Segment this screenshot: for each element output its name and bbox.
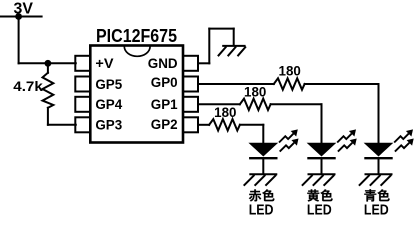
pin box left GP5: [75, 77, 90, 92]
resistor R4 180 zigzag: [209, 119, 240, 130]
ground symbol under LED D1 red: [244, 174, 278, 185]
op IC U1 PIC12F675 body: [90, 46, 183, 143]
wire GND net vertical up: [208, 29, 210, 64]
pin box right GP1: [183, 97, 198, 112]
ground symbol near IC: [218, 46, 246, 56]
wire down to yellow LED: [321, 104, 323, 143]
svg-text:LED: LED: [364, 203, 389, 219]
label 赤色 LED: [249, 189, 275, 201]
LED D2 yellow: [307, 129, 356, 158]
wire resistor bottom stub: [47, 108, 49, 125]
svg-text:GP0: GP0: [151, 75, 178, 91]
pin box left GP3: [75, 117, 90, 132]
label 黄色 LED: [307, 189, 332, 201]
wire LED D3 blue cathode: [378, 158, 380, 174]
wire resistor top stub: [47, 63, 49, 73]
svg-text:+V: +V: [95, 56, 114, 72]
svg-text:GP5: GP5: [95, 77, 122, 93]
svg-text:GP2: GP2: [151, 117, 178, 133]
ground symbol under LED D3 blue: [359, 174, 393, 185]
pin box left GP4: [75, 97, 90, 112]
junction dot on 3V rail: [15, 13, 22, 20]
wire 3V rail vertical drop: [18, 17, 20, 64]
wire GP0 to resistor R2: [198, 83, 274, 85]
resistor R3 180 zigzag: [240, 99, 271, 110]
ground symbol under LED D2 yellow: [302, 174, 336, 185]
junction node at resistor R1 top: [45, 60, 52, 67]
wire GND net horizontal: [209, 28, 233, 30]
wire to GP3 pin: [48, 124, 76, 126]
LED D1 red: [249, 129, 298, 158]
wire R4 to corner: [240, 124, 263, 126]
pin box right GP2: [183, 117, 198, 132]
svg-text:LED: LED: [307, 203, 332, 219]
LED D3 blue: [364, 129, 413, 158]
pin box right GND: [183, 56, 198, 71]
svg-text:180: 180: [279, 63, 301, 78]
wire LED D1 red cathode: [262, 158, 264, 174]
svg-text:4.7k: 4.7k: [13, 79, 43, 95]
wire 3V rail horizontal: [0, 16, 42, 18]
wire R3 to corner: [271, 103, 322, 105]
wire to +V pin: [19, 62, 76, 64]
IC pin-1 notch: [124, 46, 150, 56]
svg-text:GP1: GP1: [151, 97, 178, 113]
wire GP1 to resistor R3: [198, 103, 240, 105]
label 青色 LED: [364, 189, 389, 201]
svg-text:GP3: GP3: [95, 118, 122, 134]
wire R2 to corner: [305, 83, 379, 85]
wire GND net drop to ground: [233, 29, 235, 46]
svg-text:PIC12F675: PIC12F675: [96, 26, 177, 46]
pin box right GP0: [183, 77, 198, 92]
svg-text:GND: GND: [148, 56, 178, 72]
svg-text:180: 180: [214, 105, 236, 120]
wire down to blue LED: [378, 84, 380, 143]
pin box left +V: [75, 56, 90, 71]
wire LED D2 yellow cathode: [321, 158, 323, 174]
resistor 4.7k zigzag body: [43, 73, 54, 108]
wire GND pin stub: [198, 62, 209, 64]
wire GP2 to resistor R4: [198, 124, 209, 126]
resistor R2 180 zigzag: [274, 78, 305, 89]
svg-text:GP4: GP4: [95, 97, 122, 113]
wire down to red LED: [262, 125, 264, 144]
svg-text:LED: LED: [249, 203, 274, 219]
